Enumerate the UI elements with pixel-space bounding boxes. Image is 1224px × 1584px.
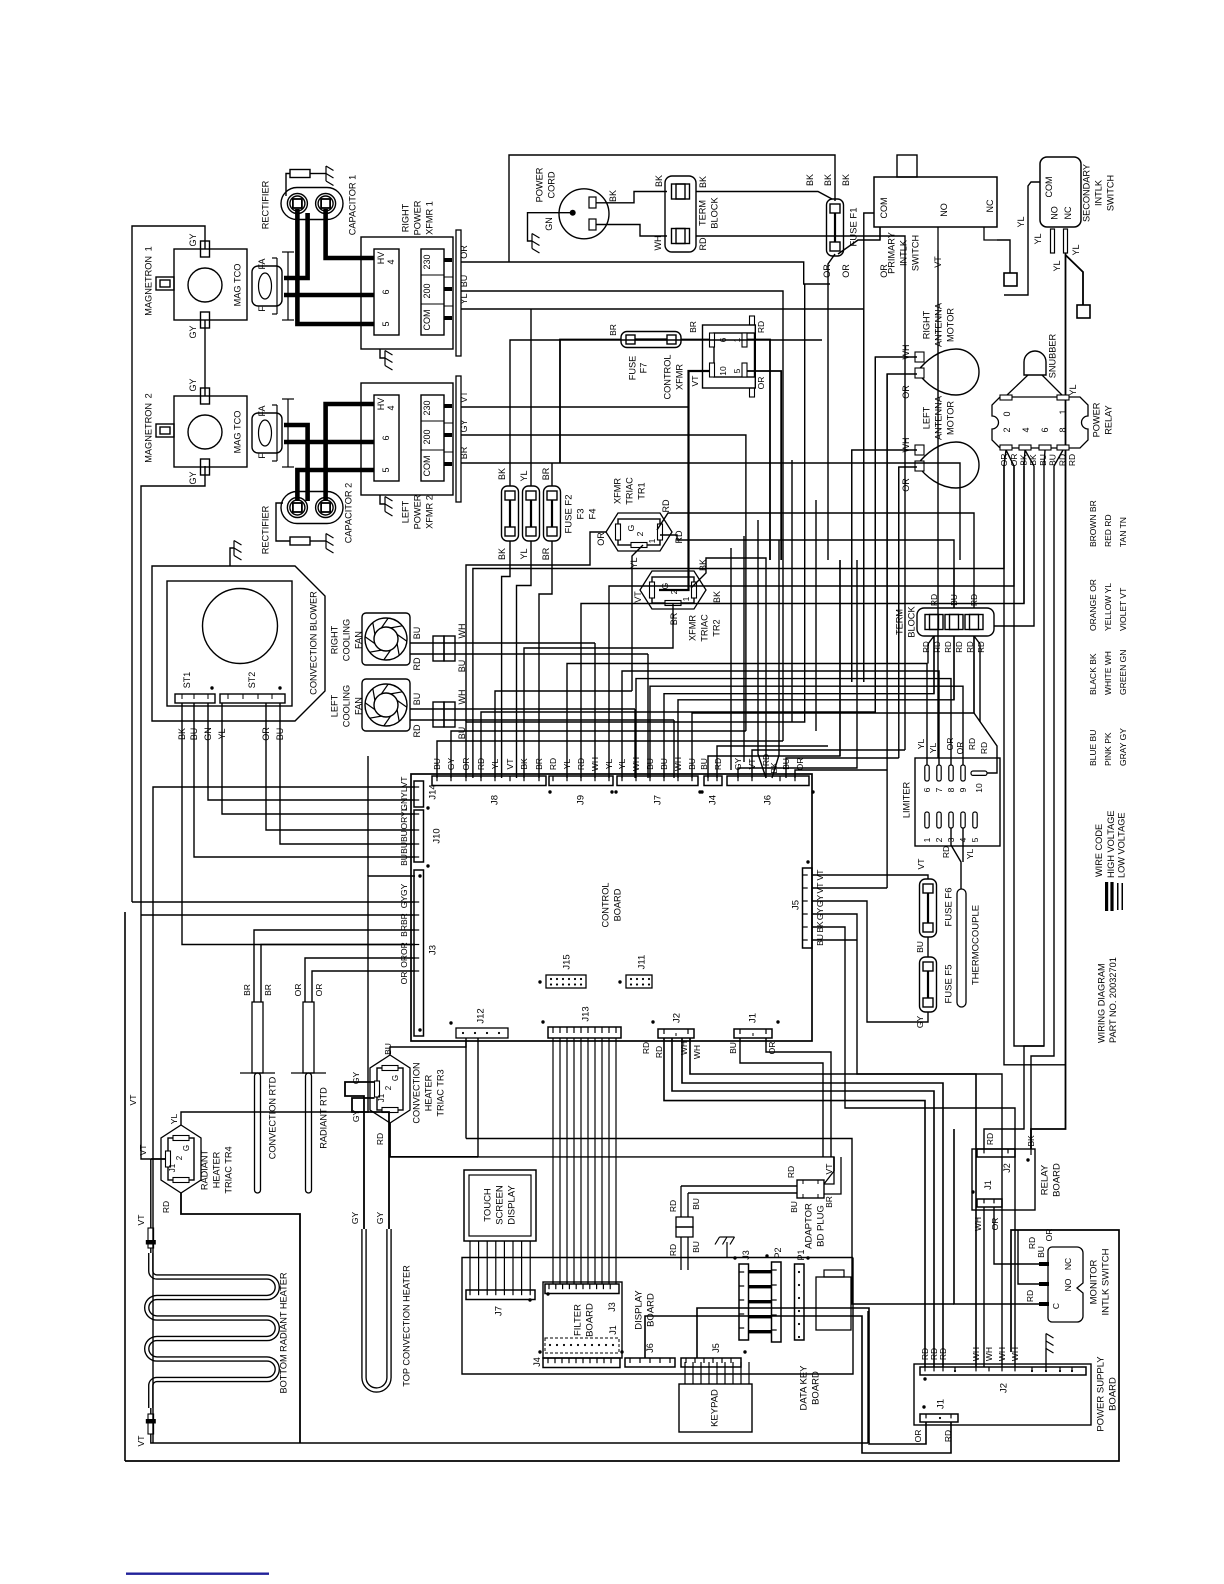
- wire BK fuse F2 top: [510, 340, 822, 486]
- wire limiter pin8 up: [636, 679, 951, 778]
- connector J9: [549, 776, 613, 786]
- svg-text:VT: VT: [138, 1145, 148, 1156]
- wire WH control J2 a: [682, 1038, 943, 1367]
- svg-text:TRIAC: TRIAC: [624, 477, 634, 505]
- svg-text:XFMR 2: XFMR 2: [424, 495, 434, 529]
- svg-text:2: 2: [1002, 427, 1012, 432]
- svg-text:CONVECTION RTD: CONVECTION RTD: [267, 1076, 277, 1159]
- wire BK fuse F2 down: [502, 541, 510, 778]
- resistor rectifier 1: [290, 170, 310, 178]
- svg-text:J2: J2: [998, 1383, 1009, 1393]
- wire bundle vertical 1: [730, 548, 732, 770]
- wire BR tr2: [524, 603, 673, 778]
- svg-text:RD: RD: [412, 657, 422, 670]
- svg-text:J13: J13: [580, 1006, 591, 1021]
- connector J6 display: [625, 1358, 675, 1367]
- svg-text:J14: J14: [427, 784, 438, 799]
- fuse F6: [920, 879, 937, 937]
- power supply board: [914, 1364, 1091, 1425]
- svg-text:CORD: CORD: [546, 171, 556, 198]
- power supply J2: [920, 1367, 1086, 1375]
- svg-text:BU: BU: [1036, 1246, 1046, 1258]
- wire J4 BU: [708, 560, 840, 778]
- svg-text:MOTOR: MOTOR: [945, 308, 955, 342]
- wire OR control J1: [766, 1038, 831, 1157]
- svg-text:NO: NO: [1063, 1278, 1073, 1291]
- svg-text:WH: WH: [984, 1347, 994, 1361]
- top convection heater: [364, 1229, 389, 1390]
- svg-text:OR: OR: [756, 377, 766, 390]
- svg-text:INTLK: INTLK: [1093, 179, 1103, 206]
- svg-text:1: 1: [1058, 409, 1068, 414]
- svg-text:J1: J1: [983, 1180, 993, 1190]
- svg-text:BOARD: BOARD: [810, 1371, 821, 1405]
- wire BU monitor: [1018, 1230, 1039, 1284]
- svg-text:SNUBBER: SNUBBER: [1047, 333, 1057, 378]
- svg-text:BK: BK: [1026, 1135, 1036, 1147]
- svg-text:SCREEN: SCREEN: [494, 1185, 505, 1225]
- svg-text:YL: YL: [1016, 216, 1026, 227]
- svg-text:MAG TCO: MAG TCO: [232, 411, 242, 454]
- svg-text:J1: J1: [168, 1163, 177, 1172]
- svg-text:J1: J1: [377, 1093, 386, 1102]
- svg-text:MOTOR: MOTOR: [945, 401, 955, 435]
- wire OR right motor: [887, 374, 917, 663]
- svg-text:WH: WH: [679, 1041, 689, 1055]
- svg-text:PRIMARY: PRIMARY: [886, 232, 896, 274]
- filter board: [543, 1282, 622, 1358]
- monitor enclosure: [125, 1230, 1119, 1461]
- svg-text:J15: J15: [561, 954, 572, 969]
- wire GY F5 to J5: [812, 901, 928, 1022]
- svg-text:J1: J1: [608, 1325, 618, 1335]
- wire VT left box: [124, 912, 126, 1461]
- svg-text:BU: BU: [691, 1198, 701, 1210]
- svg-text:LEFT: LEFT: [921, 406, 931, 429]
- svg-text:WH: WH: [653, 236, 663, 251]
- svg-text:FUSE F2: FUSE F2: [563, 494, 574, 533]
- svg-text:BUBU: BUBU: [399, 830, 409, 854]
- svg-text:YL: YL: [519, 470, 529, 481]
- wire RD tr4 down rail: [181, 1193, 300, 1443]
- term block middle: [917, 608, 994, 636]
- svg-text:CONVECTION: CONVECTION: [411, 1062, 421, 1123]
- wire J6 OR row: [795, 770, 887, 778]
- svg-text:BROWN BR: BROWN BR: [1088, 500, 1098, 547]
- connector J10: [414, 810, 424, 862]
- svg-text:ANTENNA: ANTENNA: [933, 302, 943, 347]
- svg-text:YL: YL: [965, 849, 975, 860]
- heater VT bottom connector: [150, 1408, 152, 1414]
- wire VT tr4 vertical: [141, 915, 151, 1159]
- wire HV rect1 right terminal down: [326, 209, 374, 258]
- svg-text:6: 6: [381, 435, 391, 440]
- wire OR st2: [266, 703, 415, 830]
- svg-text:OR: OR: [822, 264, 832, 278]
- wire YL secondary COM: [1004, 182, 1040, 295]
- svg-text:CONTROL: CONTROL: [662, 355, 672, 400]
- svg-text:RD: RD: [713, 758, 723, 770]
- wire J8 RD row: [481, 513, 875, 778]
- limiter pin 9: [961, 765, 965, 781]
- data key connector P2: [772, 1262, 782, 1342]
- svg-text:1: 1: [681, 596, 691, 601]
- svg-text:TRIAC TR3: TRIAC TR3: [435, 1069, 445, 1116]
- svg-text:BU: BU: [412, 627, 422, 640]
- wire relay pin4b down: [994, 450, 1034, 626]
- triac TR3: [370, 1055, 410, 1123]
- wire bundle vertical 9: [886, 374, 888, 888]
- svg-text:J3: J3: [427, 945, 438, 955]
- svg-text:5: 5: [381, 321, 391, 326]
- svg-text:230: 230: [422, 400, 432, 415]
- svg-text:RED RD: RED RD: [1103, 514, 1113, 547]
- wire adaptor VT up: [824, 1157, 834, 1184]
- svg-text:10: 10: [974, 783, 984, 793]
- svg-text:P1: P1: [796, 1249, 806, 1260]
- wire VT adaptor right: [824, 1157, 834, 1184]
- svg-text:J3: J3: [741, 1250, 751, 1260]
- svg-text:RELAY: RELAY: [1039, 1164, 1050, 1195]
- svg-text:XFMR: XFMR: [674, 364, 684, 390]
- wire YL fuse F3 top: [530, 309, 532, 486]
- filter board top connector: [545, 1284, 619, 1294]
- wire OR xfmr1 230 row: [461, 262, 830, 284]
- power supply J1: [920, 1414, 958, 1422]
- wire RD control xfmr: [747, 340, 770, 561]
- svg-text:J6: J6: [762, 795, 773, 805]
- svg-text:10: 10: [718, 366, 728, 376]
- svg-text:BU: BU: [383, 1043, 393, 1055]
- wire VT control xfmr from net: [659, 371, 710, 590]
- wire RD psu J1: [645, 1316, 951, 1453]
- svg-text:FAN: FAN: [353, 697, 363, 715]
- svg-text:J6: J6: [645, 1343, 655, 1353]
- wire F6 to F5: [927, 937, 929, 957]
- svg-text:FA: FA: [257, 258, 267, 269]
- svg-text:BOARD: BOARD: [612, 888, 622, 921]
- wire WH right motor: [875, 357, 917, 673]
- svg-text:HEATER: HEATER: [423, 1074, 433, 1111]
- wire limiter pin7 up: [622, 671, 939, 778]
- wire limiter pins3-4 to thermocouple: [951, 828, 961, 889]
- svg-text:RD: RD: [375, 1133, 385, 1145]
- control board outline: [411, 774, 812, 1041]
- limiter box: [915, 758, 1000, 846]
- svg-text:BR: BR: [541, 547, 551, 560]
- wire J12 down b: [478, 1038, 834, 1171]
- svg-text:POWER SUPPLY: POWER SUPPLY: [1095, 1356, 1106, 1432]
- svg-text:INTLK: INTLK: [898, 239, 908, 266]
- svg-text:ST1: ST1: [182, 672, 192, 689]
- wire BK loop over top: [509, 155, 835, 262]
- monitor interlock switch: [1048, 1247, 1083, 1322]
- svg-text:ANTENNA: ANTENNA: [933, 395, 943, 440]
- inline connector RD BU: [676, 1217, 693, 1227]
- svg-text:RD: RD: [661, 499, 671, 512]
- wire BK tr2: [691, 558, 766, 778]
- wire rail right vertical: [867, 1311, 869, 1443]
- wire J8 BU row: [437, 741, 783, 778]
- boards enclosure box: [462, 1258, 853, 1375]
- svg-text:COOLING: COOLING: [341, 619, 351, 661]
- svg-text:FA: FA: [257, 405, 267, 416]
- wire YL secondary NC down: [1065, 253, 1067, 405]
- rectifier-capacitor 1: [281, 188, 343, 220]
- wire BK J5 down: [812, 927, 1015, 1367]
- wire VT primary switch down: [937, 250, 939, 758]
- svg-text:RD: RD: [756, 321, 766, 333]
- svg-text:OROR: OROR: [399, 942, 409, 968]
- relay board J1: [977, 1199, 1002, 1207]
- svg-text:RD: RD: [967, 738, 977, 750]
- svg-text:J12: J12: [475, 1008, 486, 1023]
- wire GY J5b down: [812, 914, 1002, 1367]
- svg-text:NC: NC: [985, 199, 995, 212]
- wire YL secondary long down: [1031, 405, 1066, 1149]
- ground convection blower: [230, 548, 234, 566]
- wire cascade row A down: [1004, 569, 1066, 1065]
- svg-text:VIOLET VT: VIOLET VT: [1118, 588, 1128, 631]
- ground PSU: [1045, 1348, 1047, 1367]
- wire VT J5 to F6: [812, 875, 928, 879]
- svg-text:TRIAC: TRIAC: [699, 614, 709, 642]
- convection blower outline: [152, 566, 325, 721]
- svg-text:BK: BK: [698, 176, 708, 188]
- connector J13: [548, 1027, 621, 1038]
- wire rectifier1 to resistor: [286, 174, 290, 197]
- svg-text:HV: HV: [376, 398, 386, 411]
- svg-text:VT: VT: [136, 1215, 146, 1226]
- wire RD tr1 row2: [660, 535, 954, 608]
- svg-text:NO: NO: [1050, 206, 1060, 220]
- svg-text:BLUE BU: BLUE BU: [1088, 730, 1098, 766]
- svg-text:YL: YL: [928, 743, 938, 754]
- connector J8: [432, 776, 546, 786]
- connector J14: [414, 781, 424, 807]
- svg-text:RD: RD: [161, 1201, 171, 1213]
- svg-text:BK: BK: [841, 174, 851, 186]
- power transformer 1 box: [361, 237, 453, 349]
- wires term block bottom: [933, 636, 935, 694]
- svg-text:VT: VT: [128, 1095, 138, 1106]
- wire cascade row B down: [1014, 586, 1044, 1046]
- filter board J1 dashed: [545, 1338, 619, 1353]
- svg-text:BU: BU: [412, 693, 422, 706]
- svg-text:2: 2: [384, 1085, 393, 1090]
- svg-text:CAPACITOR 1: CAPACITOR 1: [347, 175, 357, 235]
- wire OR left motor: [899, 467, 917, 712]
- wire BU st1: [194, 703, 415, 857]
- svg-text:6: 6: [922, 787, 932, 792]
- connector J3: [414, 870, 424, 1036]
- svg-text:GY: GY: [188, 233, 198, 246]
- wire GN power cord to ground: [528, 213, 573, 241]
- wire YL tr4 up: [181, 876, 415, 1125]
- limiter pin 4: [961, 812, 965, 828]
- wire OR relay J1: [994, 1207, 1044, 1264]
- svg-text:HIGH VOLTAGE: HIGH VOLTAGE: [1106, 810, 1116, 878]
- wires J13 to filter board: [552, 1038, 554, 1284]
- svg-text:OR: OR: [901, 385, 911, 399]
- svg-text:WH: WH: [1010, 1347, 1020, 1361]
- svg-text:4: 4: [1021, 427, 1031, 432]
- svg-text:G: G: [626, 525, 636, 532]
- wire YL branch down: [863, 309, 865, 682]
- svg-text:TR1: TR1: [636, 482, 646, 499]
- svg-text:GY: GY: [459, 419, 469, 432]
- fuse F7: [621, 332, 681, 348]
- limiter pin 3: [949, 812, 953, 828]
- connector J7: [617, 776, 698, 786]
- wire RD tr3 down: [390, 1123, 478, 1157]
- svg-text:ORANGE OR: ORANGE OR: [1088, 579, 1098, 631]
- magnetron 2 F-FA connector: [252, 413, 282, 453]
- wire BR xfmr2 com row: [461, 463, 960, 560]
- wire mesh row 1: [473, 466, 1004, 778]
- wire J4 RD: [717, 746, 828, 778]
- wire HV rect2 right terminal to xfmr2 HV: [326, 404, 374, 501]
- connector J5: [803, 868, 813, 948]
- wire BR to fuse F7: [560, 340, 621, 464]
- svg-text:TRIAC TR4: TRIAC TR4: [223, 1146, 233, 1193]
- svg-text:RIGHT: RIGHT: [329, 625, 339, 654]
- wire HV mag1 FA to cap1: [284, 213, 308, 278]
- wire term block bu up: [953, 569, 955, 609]
- svg-text:RD: RD: [412, 724, 422, 737]
- svg-text:SWITCH: SWITCH: [910, 235, 920, 271]
- wire RD term block right: [696, 236, 905, 750]
- svg-text:F: F: [257, 306, 267, 312]
- keypad wires: [684, 1362, 686, 1384]
- svg-text:XFMR 1: XFMR 1: [424, 201, 434, 235]
- svg-text:YELLOW YL: YELLOW YL: [1103, 583, 1113, 631]
- data key connector P1: [795, 1264, 805, 1340]
- wire HV mag2 F to xfmr2 pin6: [284, 440, 374, 445]
- wire RD monitor: [954, 1129, 1039, 1304]
- wire YL fuse F3 down: [517, 541, 532, 778]
- connector J12: [456, 1028, 508, 1038]
- svg-text:GYGY: GYGY: [399, 883, 409, 908]
- wires touch screen to J7: [469, 1241, 471, 1290]
- wire BR rtd a: [254, 930, 415, 1002]
- svg-text:VT: VT: [136, 1436, 146, 1447]
- svg-text:RD: RD: [698, 237, 708, 250]
- svg-text:VT: VT: [505, 759, 515, 770]
- svg-text:J9: J9: [575, 795, 586, 805]
- svg-text:BOTTOM RADIANT HEATER: BOTTOM RADIANT HEATER: [278, 1272, 288, 1393]
- svg-text:BR: BR: [608, 324, 618, 336]
- svg-text:RD: RD: [668, 1200, 678, 1212]
- svg-text:MAG TCO: MAG TCO: [232, 264, 242, 307]
- svg-text:COM: COM: [422, 456, 432, 477]
- rectifier-capacitor 2: [281, 492, 343, 524]
- wire HV mag1 F to xfmr1 pin6: [284, 293, 374, 298]
- svg-text:BOARD: BOARD: [1107, 1377, 1118, 1411]
- term block top: [665, 176, 696, 252]
- svg-text:DATA KEY: DATA KEY: [798, 1365, 809, 1411]
- relay board J2: [977, 1149, 1015, 1157]
- svg-text:6: 6: [1040, 427, 1050, 432]
- svg-text:5: 5: [970, 837, 980, 842]
- svg-text:YL: YL: [1068, 384, 1078, 395]
- svg-text:YL: YL: [1033, 233, 1043, 244]
- wire bundle vertical 3: [791, 460, 793, 722]
- svg-text:J2: J2: [1002, 1163, 1012, 1173]
- svg-text:BK: BK: [712, 591, 722, 603]
- svg-text:RECTIFIER: RECTIFIER: [260, 505, 270, 554]
- limiter pin 2: [937, 812, 941, 828]
- svg-text:FUSE F6: FUSE F6: [943, 887, 954, 926]
- svg-text:1: 1: [922, 837, 932, 842]
- svg-text:RD: RD: [1067, 454, 1077, 466]
- fuse F1: [827, 199, 844, 256]
- wire BR rtd b: [261, 945, 415, 1003]
- wire GY tr3 b: [352, 1098, 389, 1229]
- wire J8 OR row: [466, 284, 805, 778]
- wire relay pin2b down: [1006, 450, 1014, 586]
- svg-text:OR: OR: [596, 532, 606, 546]
- svg-text:XFMR: XFMR: [687, 615, 697, 641]
- wire relay pin2 down: [1004, 450, 1006, 569]
- svg-text:F4: F4: [587, 508, 598, 519]
- svg-text:J4: J4: [532, 1357, 542, 1367]
- svg-text:J5: J5: [790, 900, 801, 910]
- wire mesh row 4: [664, 636, 934, 778]
- svg-text:FUSE F5: FUSE F5: [943, 964, 954, 1003]
- svg-text:BRBR: BRBR: [399, 913, 409, 937]
- svg-text:RD: RD: [786, 1166, 796, 1178]
- ground rectifier 2: [326, 534, 334, 554]
- svg-text:0: 0: [1002, 411, 1012, 416]
- triac TR1: [606, 513, 672, 551]
- svg-text:F7: F7: [638, 363, 648, 374]
- wire WH left motor: [852, 450, 917, 682]
- svg-text:200: 200: [422, 429, 432, 444]
- svg-text:5: 5: [732, 368, 742, 373]
- svg-text:CONTROL: CONTROL: [600, 883, 610, 928]
- svg-text:MONITOR: MONITOR: [1088, 1260, 1099, 1305]
- svg-text:WH: WH: [692, 1045, 702, 1059]
- svg-text:RADIANT: RADIANT: [199, 1149, 209, 1190]
- svg-text:WH: WH: [973, 1217, 983, 1231]
- touch screen display: [464, 1170, 536, 1241]
- svg-text:YL: YL: [1052, 260, 1062, 271]
- wire J6 GY row: [738, 560, 857, 778]
- wire resistor2 to ground: [310, 540, 326, 542]
- svg-text:WHITE WH: WHITE WH: [1103, 651, 1113, 695]
- svg-text:200: 200: [422, 283, 432, 298]
- svg-text:COM: COM: [1044, 177, 1054, 198]
- svg-text:4: 4: [386, 405, 396, 410]
- wire relay pin4 down: [1024, 450, 1025, 604]
- svg-text:BU: BU: [915, 941, 925, 953]
- radiant RTD: [303, 1002, 314, 1073]
- svg-text:WH: WH: [457, 624, 467, 639]
- svg-text:RD: RD: [674, 530, 684, 543]
- svg-text:J4: J4: [707, 795, 718, 805]
- wire OR psu J1: [697, 1308, 926, 1444]
- svg-text:WIRING DIAGRAM: WIRING DIAGRAM: [1096, 963, 1106, 1043]
- wire bundle vertical 10: [898, 467, 900, 758]
- svg-text:YL: YL: [519, 548, 529, 559]
- svg-text:RD: RD: [548, 758, 558, 770]
- svg-text:MAGNETRON 1: MAGNETRON 1: [143, 246, 153, 315]
- connector ST2: [220, 694, 285, 703]
- svg-text:7: 7: [934, 787, 944, 792]
- svg-text:OR: OR: [399, 972, 409, 985]
- wire VT J14 long: [153, 787, 415, 1443]
